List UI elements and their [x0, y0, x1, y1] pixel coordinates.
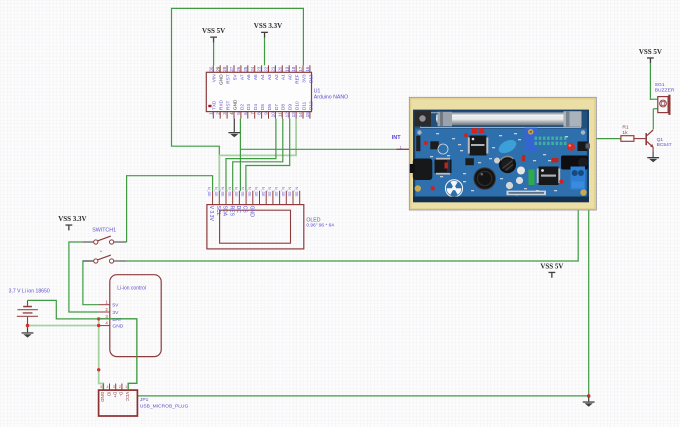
junction dot GND row [97, 324, 100, 327]
wire SWITCH2 to Li-ion 5V [83, 261, 99, 305]
Q1 reference label [657, 137, 672, 148]
OLED body [207, 205, 304, 249]
wire GND down to USB GND (highlighted) [99, 319, 104, 390]
svg-text:N_DE: N_DE [241, 187, 245, 197]
U1 pin stubs top 30..16 and bottom 1..15 [213, 65, 310, 118]
wire battery+ to BAT [28, 300, 99, 319]
svg-text:D+: D+ [113, 392, 118, 398]
svg-text:2: 2 [215, 112, 220, 115]
svg-text:16: 16 [305, 66, 310, 72]
svg-text:N_DE: N_DE [261, 187, 265, 197]
svg-text:Arduino NANO: Arduino NANO [314, 95, 348, 101]
wire D7 to OLED SDA [226, 119, 276, 191]
resistor R1 1k [621, 125, 634, 142]
svg-text:GND: GND [100, 392, 105, 403]
svg-text:9: 9 [264, 112, 269, 115]
svg-text:N_DE: N_DE [234, 187, 238, 197]
svg-text:A5: A5 [253, 74, 258, 80]
svg-text:30: 30 [208, 66, 213, 72]
U1 pin numbers bottom row 1..15 [208, 112, 310, 118]
power flag VSS 5V (U1 VIN) [202, 27, 225, 65]
wire board to R1 [596, 138, 621, 140]
svg-text:RST: RST [226, 74, 231, 84]
svg-text:D-: D- [119, 392, 124, 397]
wire ground rail bottom [137, 395, 588, 397]
battery 3,7V Li ion 18650 [9, 289, 50, 326]
regulator U2 Li-ion control [99, 275, 162, 357]
wire Geiger GND down [588, 210, 590, 396]
svg-text:A7: A7 [239, 74, 244, 80]
svg-text:D10: D10 [295, 101, 300, 110]
svg-text:GND: GND [112, 324, 123, 330]
svg-text:21: 21 [271, 66, 276, 72]
svg-text:7: 7 [250, 112, 255, 115]
svg-text:GND: GND [232, 99, 237, 110]
Q1 base wire [634, 138, 646, 140]
wire buzzer to Q1 collector [652, 109, 654, 130]
U1 pin names bottom row TXD..D12 [212, 99, 314, 110]
svg-text:25: 25 [243, 66, 248, 72]
svg-text:N_DE: N_DE [274, 187, 278, 197]
svg-text:24: 24 [250, 66, 255, 72]
svg-text:SDA: SDA [222, 206, 228, 217]
svg-text:U1: U1 [314, 89, 321, 95]
svg-text:0.96" 96 * 64: 0.96" 96 * 64 [306, 223, 334, 229]
svg-text:28: 28 [222, 66, 227, 72]
power flag VSS 5V (buzzer) [639, 48, 662, 100]
ground under Q1 emitter [652, 152, 654, 157]
svg-text:VSS 5V: VSS 5V [202, 27, 225, 35]
switch SWITCH1 pole B [83, 255, 127, 263]
wire INT net [240, 148, 396, 150]
svg-text:SG1: SG1 [655, 82, 665, 88]
module Geiger counter board (photo) [409, 97, 596, 210]
svg-text:A3: A3 [267, 74, 272, 80]
svg-text:14: 14 [298, 112, 303, 118]
svg-text:INT: INT [392, 135, 402, 141]
switch gang link dot [100, 251, 101, 252]
svg-text:DC: DC [235, 206, 241, 214]
svg-text:Li-ion control: Li-ion control [117, 285, 146, 291]
display OLED 0.96 96*64 [207, 187, 334, 249]
svg-text:R1: R1 [622, 125, 629, 131]
svg-text:10: 10 [271, 112, 276, 118]
wire D8 to OLED RES [233, 119, 283, 191]
svg-text:13: 13 [291, 112, 296, 118]
svg-text:D2: D2 [239, 104, 244, 110]
Geiger board pin 1 stub [396, 145, 410, 150]
svg-text:BC547: BC547 [657, 142, 672, 148]
svg-text:USB_MICROB_PLUG: USB_MICROB_PLUG [140, 403, 189, 409]
svg-text:20: 20 [277, 66, 282, 72]
wire 5V rail to Geiger board [127, 210, 579, 261]
svg-text:D3: D3 [246, 104, 251, 110]
buzzer SG1 [650, 82, 674, 115]
svg-text:N_DE: N_DE [227, 187, 231, 197]
svg-text:5: 5 [100, 385, 102, 389]
svg-text:V 3.3V: V 3.3V [208, 206, 214, 222]
OLED pin stubs [213, 191, 300, 205]
power flag VSS 3.3V (U1) [254, 22, 282, 65]
svg-text:VSS 5V: VSS 5V [540, 262, 563, 270]
svg-text:N_DE: N_DE [214, 187, 218, 197]
svg-text:D9: D9 [288, 104, 293, 110]
svg-text:VIN: VIN [212, 74, 217, 82]
svg-text:26: 26 [236, 66, 241, 72]
svg-text:3V: 3V [112, 310, 119, 316]
svg-text:3,7 V Li ion 18650: 3,7 V Li ion 18650 [9, 289, 50, 295]
svg-text:15: 15 [305, 112, 310, 118]
svg-text:3V3: 3V3 [301, 74, 306, 83]
svg-text:OLED: OLED [306, 217, 320, 223]
svg-text:N_DE: N_DE [247, 187, 251, 197]
ground at bottom rail [588, 397, 590, 402]
svg-text:N_DE: N_DE [268, 187, 272, 197]
ground at U1 GND pin [233, 119, 235, 132]
svg-text:VCC: VCC [125, 392, 130, 402]
svg-text:RXD: RXD [219, 99, 224, 110]
svg-text:D4: D4 [253, 104, 258, 110]
svg-text:29: 29 [215, 66, 220, 72]
U1 pin numbers top row 30..16 [208, 66, 310, 72]
wire BAT to USB VCC (overlay) [99, 319, 137, 390]
ground symbol U1 [228, 132, 240, 137]
wire D9 to OLED CS [246, 119, 290, 191]
svg-text:SCL: SCL [215, 206, 221, 216]
U1 pin names top row VIN..D13 [212, 74, 314, 85]
wire 3V net to SWITCH1 and Li-ion 3V [69, 242, 99, 312]
svg-text:TXD: TXD [212, 100, 217, 110]
svg-text:SWITCH1: SWITCH1 [92, 228, 116, 234]
svg-text:A0: A0 [288, 74, 293, 80]
svg-text:CS: CS [242, 206, 248, 214]
svg-text:18: 18 [291, 66, 296, 72]
ground symbol battery [22, 332, 34, 337]
svg-text:11: 11 [277, 112, 282, 117]
svg-text:BAT: BAT [112, 317, 121, 323]
svg-text:1: 1 [208, 112, 213, 115]
svg-text:8: 8 [257, 112, 262, 115]
SG1 reference label [655, 82, 675, 94]
junction dot battery minus [26, 324, 30, 328]
svg-text:A6: A6 [246, 74, 251, 80]
svg-text:4: 4 [107, 385, 109, 389]
U1 pin 1 marker [208, 105, 211, 107]
svg-text:D8: D8 [281, 104, 286, 110]
ground symbol rail [583, 401, 595, 406]
svg-text:6: 6 [243, 112, 248, 115]
svg-text:A4: A4 [260, 74, 265, 80]
svg-text:GND: GND [248, 206, 254, 218]
svg-text:ID: ID [106, 392, 111, 397]
svg-text:RST: RST [226, 100, 231, 110]
svg-text:N_DE: N_DE [254, 187, 258, 197]
svg-text:N_DE: N_DE [294, 187, 298, 197]
power flag VSS 5V (rail) [540, 262, 563, 278]
OLED tiny pin labels [207, 187, 298, 197]
svg-text:4: 4 [229, 112, 234, 115]
ground under battery [27, 327, 29, 332]
wire net3V3 box route [172, 8, 304, 156]
svg-text:N_DE: N_DE [221, 187, 225, 197]
svg-text:BUZZER: BUZZER [655, 88, 675, 94]
svg-text:N_DE: N_DE [207, 187, 211, 197]
svg-text:12: 12 [284, 112, 289, 118]
svg-text:REF: REF [295, 74, 300, 84]
svg-text:D13: D13 [308, 74, 313, 83]
wire SWITCH1 to OLED V3.3 [127, 176, 213, 242]
svg-text:D12: D12 [308, 101, 313, 110]
svg-text:5: 5 [236, 112, 241, 115]
svg-text:5V: 5V [232, 74, 237, 81]
svg-text:22: 22 [264, 66, 269, 72]
svg-text:D5: D5 [260, 104, 265, 110]
svg-text:2: 2 [119, 385, 121, 389]
microcontroller U1 Arduino NANO [206, 65, 348, 118]
svg-text:17: 17 [298, 66, 303, 72]
svg-text:VSS 3.3V: VSS 3.3V [58, 215, 86, 223]
U1 body [206, 72, 311, 111]
OLED value label [306, 217, 334, 228]
wire BAT to USB VCC [99, 319, 137, 390]
svg-text:A1: A1 [281, 74, 286, 80]
svg-text:D6: D6 [267, 104, 272, 110]
connector JP1 USB_MICROB_PLUG [99, 384, 189, 417]
junction dot GND mid [97, 368, 100, 371]
switch SWITCH1 pole A [82, 228, 126, 244]
svg-text:23: 23 [257, 66, 262, 72]
U1 reference label [314, 89, 348, 101]
Q1 body [645, 130, 653, 152]
svg-text:D11: D11 [301, 101, 306, 110]
SG1 body [658, 95, 671, 115]
junction dot ground rail [587, 394, 591, 398]
ground symbol Q1 [647, 157, 659, 162]
svg-text:A2: A2 [274, 74, 279, 80]
svg-text:27: 27 [229, 66, 234, 72]
svg-text:1k: 1k [622, 130, 628, 136]
svg-text:JP1: JP1 [140, 397, 149, 403]
SG1 pin wires [650, 99, 657, 109]
node INT net label [392, 135, 402, 141]
svg-text:VSS 3.3V: VSS 3.3V [254, 22, 282, 30]
transistor Q1 BC547 [634, 130, 672, 152]
svg-text:1: 1 [125, 385, 127, 389]
svg-text:N_DE: N_DE [288, 187, 292, 197]
wire D10 to OLED SCL (highlighted) [219, 119, 296, 191]
OLED pin names V3.3V SCL SDA RES DC CS GND [208, 206, 254, 222]
svg-text:19: 19 [284, 66, 289, 72]
wire D2 to OLED DC [239, 119, 241, 191]
svg-text:GND: GND [219, 74, 224, 85]
svg-text:D7: D7 [274, 104, 279, 110]
svg-text:3: 3 [222, 112, 227, 115]
svg-text:VSS 5V: VSS 5V [639, 48, 662, 56]
svg-text:N_DE: N_DE [281, 187, 285, 197]
svg-text:3: 3 [113, 385, 115, 389]
svg-text:RES: RES [228, 206, 234, 217]
svg-text:5V: 5V [112, 303, 119, 309]
power flag VSS 3.3V (switch) [58, 215, 86, 231]
junction dot BAT [97, 317, 100, 320]
wire battery- to Li-ion GND (highlighted) [28, 325, 99, 327]
